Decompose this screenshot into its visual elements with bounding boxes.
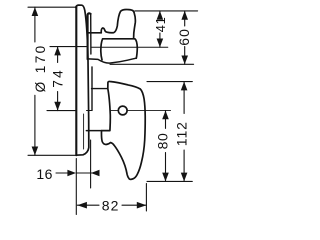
O74 bottom extension xyxy=(47,110,76,112)
lever (up) xyxy=(101,10,135,39)
svg-text:82: 82 xyxy=(102,198,120,214)
sleeve bottom edge xyxy=(87,110,92,112)
82 arrows (inside, pointing out) xyxy=(77,202,87,209)
lever neck bottom line xyxy=(92,88,108,90)
svg-text:16: 16 xyxy=(36,166,53,182)
O74 top extension xyxy=(50,46,86,48)
sleeve top edge xyxy=(88,32,101,34)
O170 top extension xyxy=(28,6,75,8)
sleeve front edge xyxy=(91,67,93,110)
plate front edge xyxy=(90,14,92,54)
hub internal line / 41 lower reference xyxy=(91,46,167,48)
pivot circle xyxy=(118,106,127,115)
wall/back line thick xyxy=(88,13,91,59)
60 bottom extension xyxy=(110,63,194,65)
82 right extension xyxy=(145,184,147,212)
O170 dim line xyxy=(34,7,36,155)
handle hub xyxy=(101,39,138,60)
svg-text:112: 112 xyxy=(174,121,190,146)
41/60 top extension xyxy=(135,10,198,12)
16 arrows (outside, pointing in) xyxy=(67,170,76,177)
80/112 bottom extension xyxy=(147,180,192,182)
112 dim line xyxy=(183,82,185,182)
82 dim line xyxy=(77,204,146,206)
svg-text:Ø 170: Ø 170 xyxy=(33,43,48,92)
60 arrows xyxy=(181,11,188,20)
svg-text:80: 80 xyxy=(155,133,171,150)
svg-text:60: 60 xyxy=(176,28,192,46)
sleeve bottom edge xyxy=(88,58,136,63)
41 arrows xyxy=(157,11,164,20)
O74 dim line xyxy=(57,47,59,111)
112 arrows xyxy=(181,82,188,91)
O170 bottom extension xyxy=(28,154,76,156)
escutcheon back edge thick xyxy=(75,7,77,155)
O74 arrows xyxy=(54,47,61,56)
16/82 left extension (wall line down) xyxy=(75,159,77,215)
16 dim line xyxy=(56,172,99,174)
escutcheon inner rim line xyxy=(83,114,85,149)
escutcheon outline xyxy=(76,5,89,155)
pivot centerline xyxy=(111,109,171,111)
O170 arrows xyxy=(32,7,39,16)
lever (down) outline xyxy=(101,81,145,179)
lever flange line xyxy=(86,130,101,132)
112 top extension xyxy=(147,81,192,83)
41 dim line xyxy=(159,11,161,47)
svg-text:74: 74 xyxy=(50,68,65,88)
80 arrows xyxy=(162,111,169,120)
svg-text:41: 41 xyxy=(153,17,168,33)
16 right extension xyxy=(90,140,92,188)
80 dim line xyxy=(165,111,167,182)
60 dim line xyxy=(184,11,186,64)
